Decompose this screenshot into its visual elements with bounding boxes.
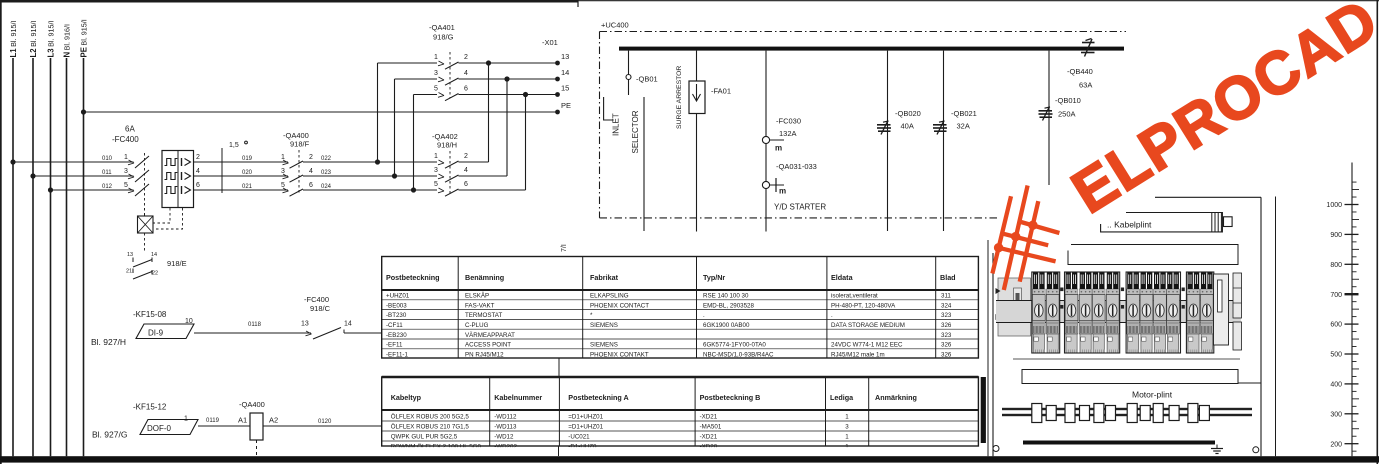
- svg-text:1: 1: [281, 154, 285, 161]
- svg-text:RSE 140 100 30: RSE 140 100 30: [703, 293, 749, 300]
- svg-text:ELKAPSLING: ELKAPSLING: [590, 293, 629, 300]
- svg-text:2: 2: [464, 54, 468, 61]
- svg-text:Bl. 927/H: Bl. 927/H: [91, 337, 126, 347]
- svg-text:4: 4: [196, 168, 200, 175]
- svg-text:918/F: 918/F: [290, 140, 310, 149]
- svg-text:-UC021: -UC021: [568, 433, 590, 440]
- svg-text:-WD12: -WD12: [494, 433, 514, 440]
- svg-text:-MA501: -MA501: [700, 423, 722, 430]
- svg-text:FAS-VAKT: FAS-VAKT: [465, 302, 495, 309]
- svg-text:-EB230: -EB230: [386, 332, 407, 339]
- svg-text:1: 1: [434, 153, 438, 160]
- svg-text:-EF11: -EF11: [386, 342, 403, 349]
- svg-text:2: 2: [196, 154, 200, 161]
- svg-text:6GK5774-1FY00-0TA0: 6GK5774-1FY00-0TA0: [703, 342, 766, 349]
- svg-text:011: 011: [102, 170, 112, 176]
- svg-text:3: 3: [281, 168, 285, 175]
- svg-text:-QB010: -QB010: [1055, 96, 1081, 105]
- svg-text:Eldata: Eldata: [831, 273, 854, 282]
- svg-text:132A: 132A: [779, 129, 797, 138]
- svg-text:-WD113: -WD113: [494, 423, 517, 430]
- svg-text:=D1+UHZ01: =D1+UHZ01: [568, 423, 603, 430]
- svg-text:-BE003: -BE003: [386, 302, 407, 309]
- svg-text:-BT230: -BT230: [386, 312, 407, 319]
- svg-text:14: 14: [561, 68, 569, 77]
- svg-text:250A: 250A: [1058, 110, 1076, 119]
- svg-text:13: 13: [127, 252, 133, 258]
- svg-text:1,5: 1,5: [229, 142, 239, 149]
- svg-text:TERMOSTAT: TERMOSTAT: [465, 312, 502, 319]
- svg-text:Blad: Blad: [940, 273, 956, 282]
- svg-text:Postbeteckning A: Postbeteckning A: [568, 393, 628, 402]
- svg-text:326: 326: [941, 351, 952, 358]
- svg-text:24VDC W774-1 M12 EEC: 24VDC W774-1 M12 EEC: [831, 342, 903, 349]
- svg-text:Postbeteckning B: Postbeteckning B: [700, 393, 761, 402]
- svg-text:PH-480-PT, 120-480VA: PH-480-PT, 120-480VA: [831, 302, 896, 309]
- svg-text:918/C: 918/C: [310, 304, 331, 313]
- svg-text:1000: 1000: [1326, 202, 1342, 209]
- svg-text:-QA400: -QA400: [239, 400, 265, 409]
- svg-text:NBC-MSD/1,0-93B/R4AC: NBC-MSD/1,0-93B/R4AC: [703, 351, 774, 358]
- svg-text:QWPK GUL PUR 5G2,5: QWPK GUL PUR 5G2,5: [391, 433, 458, 440]
- svg-text:4: 4: [309, 168, 313, 175]
- svg-text:ÖLFLEX ROBUS 210 7G1,5: ÖLFLEX ROBUS 210 7G1,5: [391, 423, 470, 430]
- svg-text:323: 323: [941, 332, 952, 339]
- svg-text:020: 020: [242, 170, 253, 176]
- svg-text:m: m: [779, 187, 786, 196]
- svg-text:6: 6: [464, 86, 468, 93]
- svg-text:3: 3: [434, 167, 438, 174]
- svg-text:Kabeltyp: Kabeltyp: [391, 393, 422, 402]
- svg-text:0118: 0118: [248, 322, 262, 328]
- svg-text:PHOENIX CONTACT: PHOENIX CONTACT: [590, 302, 649, 309]
- svg-text:-KF15-08: -KF15-08: [133, 310, 167, 319]
- svg-text:0120: 0120: [318, 419, 332, 425]
- svg-text:918/H: 918/H: [437, 141, 457, 150]
- svg-text:32A: 32A: [957, 122, 970, 131]
- svg-text:-QB440: -QB440: [1067, 67, 1093, 76]
- svg-text:019: 019: [242, 156, 253, 162]
- svg-text:Typ/Nr: Typ/Nr: [703, 273, 725, 282]
- svg-text:500: 500: [1330, 352, 1342, 359]
- svg-text:isolerat,ventilerat: isolerat,ventilerat: [831, 293, 878, 300]
- svg-text:324: 324: [941, 302, 952, 309]
- svg-text:918/G: 918/G: [433, 33, 454, 42]
- svg-text:NBl. 916/I: NBl. 916/I: [62, 24, 71, 58]
- svg-text:13: 13: [301, 321, 309, 328]
- svg-text:023: 023: [321, 170, 332, 176]
- svg-text:311: 311: [941, 293, 951, 300]
- svg-text:700: 700: [1330, 292, 1342, 299]
- svg-text:012: 012: [102, 184, 113, 190]
- svg-text:1: 1: [184, 416, 188, 423]
- svg-text:ÖLFLEX ROBUS 200 5G2,5: ÖLFLEX ROBUS 200 5G2,5: [391, 413, 470, 420]
- svg-text:63A: 63A: [1079, 81, 1092, 90]
- svg-text:+UHZ01: +UHZ01: [386, 293, 410, 300]
- svg-text:2: 2: [309, 154, 313, 161]
- svg-text:Postbeteckning: Postbeteckning: [386, 273, 440, 282]
- svg-text:PE: PE: [561, 101, 571, 110]
- svg-text:10: 10: [185, 318, 193, 325]
- svg-text:.. Kabelplint: .. Kabelplint: [1107, 220, 1152, 230]
- svg-text:-QA401: -QA401: [429, 23, 455, 32]
- svg-text:+UC400: +UC400: [601, 21, 629, 30]
- svg-text:.: .: [703, 312, 705, 319]
- svg-text:40A: 40A: [901, 122, 914, 131]
- svg-text:14: 14: [344, 321, 352, 328]
- svg-text:7/I: 7/I: [561, 244, 568, 252]
- svg-text:-FC400: -FC400: [112, 135, 139, 144]
- svg-text:600: 600: [1330, 322, 1342, 329]
- svg-text:.: .: [831, 312, 833, 319]
- svg-text:3: 3: [845, 423, 849, 430]
- svg-text:024: 024: [321, 184, 332, 190]
- svg-text:15: 15: [561, 84, 569, 93]
- svg-text:1: 1: [124, 154, 128, 161]
- svg-text:1: 1: [845, 433, 849, 440]
- svg-text:Lediga: Lediga: [830, 393, 854, 402]
- svg-text:6: 6: [196, 182, 200, 189]
- svg-text:SIEMENS: SIEMENS: [590, 322, 618, 329]
- svg-text:3: 3: [124, 168, 128, 175]
- svg-text:PN RJ45/M12: PN RJ45/M12: [465, 351, 504, 358]
- svg-text:A1: A1: [238, 416, 247, 425]
- svg-text:A2: A2: [269, 416, 278, 425]
- svg-text:VÄRMEAPPARAT: VÄRMEAPPARAT: [465, 332, 515, 339]
- svg-text:3: 3: [434, 70, 438, 77]
- svg-text:-X01: -X01: [542, 38, 558, 47]
- svg-text:Fabrikat: Fabrikat: [590, 273, 619, 282]
- svg-text:918/E: 918/E: [167, 259, 187, 268]
- svg-text:900: 900: [1330, 232, 1342, 239]
- svg-text:0119: 0119: [206, 418, 220, 424]
- svg-text:C-PLUG: C-PLUG: [465, 322, 489, 329]
- svg-text:4: 4: [464, 70, 468, 77]
- svg-text:-KF15-12: -KF15-12: [133, 403, 167, 412]
- svg-text:326: 326: [941, 322, 952, 329]
- svg-text:6A: 6A: [125, 125, 135, 134]
- svg-text:010: 010: [102, 156, 113, 162]
- svg-text:200: 200: [1330, 441, 1342, 448]
- svg-text:-QB020: -QB020: [895, 109, 921, 118]
- svg-text:PHOENIX CONTAKT: PHOENIX CONTAKT: [590, 351, 649, 358]
- svg-text:DATA STORAGE MEDIUM: DATA STORAGE MEDIUM: [831, 322, 905, 329]
- svg-text:L2Bl. 915/I: L2Bl. 915/I: [29, 21, 38, 58]
- svg-text:5: 5: [434, 86, 438, 93]
- svg-text:-QA031-033: -QA031-033: [776, 162, 817, 171]
- svg-text:m: m: [775, 144, 782, 153]
- svg-text:4: 4: [464, 167, 468, 174]
- svg-text:400: 400: [1330, 382, 1342, 389]
- svg-text:Benämning: Benämning: [465, 273, 504, 282]
- svg-text:300: 300: [1330, 411, 1342, 418]
- svg-text:INLET: INLET: [612, 113, 621, 136]
- svg-text:Motor-plint: Motor-plint: [1132, 390, 1173, 400]
- svg-text:13: 13: [561, 52, 569, 61]
- svg-text:-FC030: -FC030: [776, 117, 801, 126]
- svg-text:Y/D STARTER: Y/D STARTER: [774, 203, 826, 212]
- svg-text:ELSKÅP: ELSKÅP: [465, 293, 489, 300]
- svg-text:-QB01: -QB01: [636, 75, 658, 84]
- svg-text:323: 323: [941, 312, 952, 319]
- svg-text:1: 1: [434, 54, 438, 61]
- svg-text:DI-9: DI-9: [148, 329, 164, 338]
- svg-text:2: 2: [464, 153, 468, 160]
- svg-text:PEBl. 915/I: PEBl. 915/I: [79, 19, 88, 57]
- svg-text:DOF-0: DOF-0: [147, 424, 172, 433]
- svg-text:-QB021: -QB021: [951, 109, 977, 118]
- svg-text:6GK1900 0AB00: 6GK1900 0AB00: [703, 322, 750, 329]
- svg-text:326: 326: [941, 342, 952, 349]
- svg-text:22: 22: [152, 271, 158, 277]
- svg-text:022: 022: [321, 156, 332, 162]
- svg-text:800: 800: [1330, 262, 1342, 269]
- svg-text:SELECTOR: SELECTOR: [631, 110, 640, 153]
- svg-text:Bl. 927/G: Bl. 927/G: [92, 430, 127, 440]
- svg-text:SIEMENS: SIEMENS: [590, 342, 618, 349]
- svg-text:21: 21: [126, 269, 132, 275]
- svg-text:5: 5: [124, 182, 128, 189]
- svg-text:=D1+UHZ01: =D1+UHZ01: [568, 413, 603, 420]
- svg-text:6: 6: [309, 182, 313, 189]
- svg-text:-FC400: -FC400: [304, 295, 329, 304]
- svg-text:5: 5: [434, 181, 438, 188]
- svg-text:-XD21: -XD21: [700, 413, 718, 420]
- svg-text:-XD21: -XD21: [700, 433, 718, 440]
- svg-text:5: 5: [281, 182, 285, 189]
- svg-text:RJ45/M12 male 1m: RJ45/M12 male 1m: [831, 351, 885, 358]
- svg-text:021: 021: [242, 184, 253, 190]
- svg-text:-EF11-1: -EF11-1: [386, 351, 408, 358]
- svg-text:L3Bl. 915/I: L3Bl. 915/I: [46, 21, 55, 58]
- svg-text:-WD112: -WD112: [494, 413, 517, 420]
- svg-text:ACCESS POINT: ACCESS POINT: [465, 342, 511, 349]
- svg-text:-FA01: -FA01: [711, 87, 731, 96]
- svg-text:1: 1: [845, 413, 849, 420]
- svg-text:L1Bl. 915/I: L1Bl. 915/I: [9, 21, 18, 58]
- svg-text:Kabelnummer: Kabelnummer: [494, 393, 542, 402]
- svg-text:14: 14: [151, 252, 157, 258]
- svg-text:SURGE ARRESTOR: SURGE ARRESTOR: [676, 66, 683, 129]
- svg-text:EMD-BL, 2903528: EMD-BL, 2903528: [703, 302, 754, 309]
- svg-text:Anmärkning: Anmärkning: [875, 393, 917, 402]
- svg-text:6: 6: [464, 181, 468, 188]
- svg-text:-CF11: -CF11: [386, 322, 403, 329]
